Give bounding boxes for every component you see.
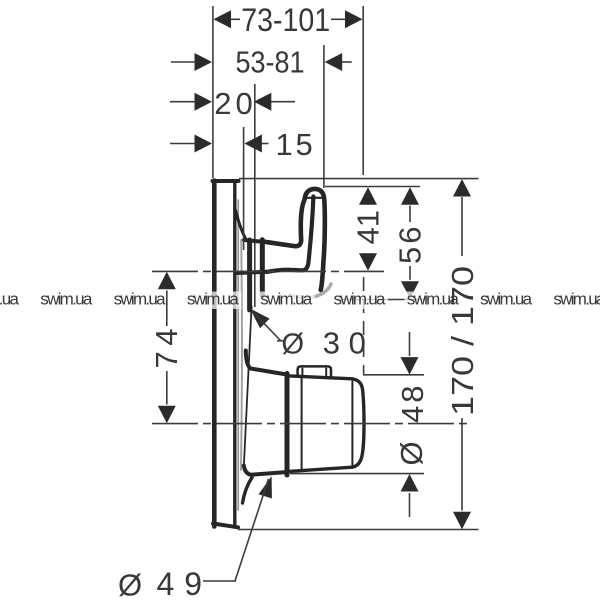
svg-text:9: 9 (184, 566, 202, 600)
svg-text:swim.ua: swim.ua (114, 290, 167, 309)
svg-text:0: 0 (236, 86, 253, 121)
svg-text:swim.ua: swim.ua (187, 290, 240, 309)
svg-text:73-101: 73-101 (241, 2, 330, 38)
svg-text:swim.ua: swim.ua (40, 290, 93, 309)
svg-text:swim.ua: swim.ua (480, 290, 533, 309)
svg-text:swim.ua: swim.ua (260, 290, 313, 309)
svg-text:swim.ua: swim.ua (553, 290, 600, 309)
svg-text:1: 1 (276, 127, 293, 162)
svg-text:swim.ua: swim.ua (0, 290, 20, 309)
svg-text:4: 4 (157, 566, 175, 600)
svg-text:170 / 170: 170 / 170 (445, 266, 480, 416)
svg-text:0: 0 (349, 326, 366, 361)
svg-text:swim.ua: swim.ua (334, 290, 387, 309)
svg-text:Ø: Ø (282, 329, 305, 361)
svg-text:3: 3 (323, 326, 340, 361)
svg-text:Ø: Ø (394, 441, 429, 465)
svg-text:Ø: Ø (118, 568, 142, 600)
svg-text:5: 5 (296, 127, 313, 162)
svg-text:2: 2 (214, 86, 231, 121)
svg-text:41: 41 (351, 210, 386, 244)
svg-text:53-81: 53-81 (236, 44, 305, 79)
